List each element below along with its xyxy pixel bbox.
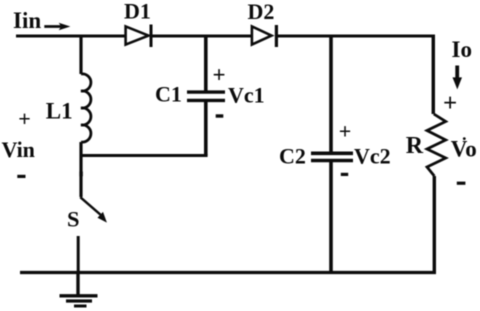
svg-text:+: + [18, 106, 31, 131]
svg-text:D1: D1 [124, 0, 151, 24]
svg-text:Io: Io [452, 37, 472, 62]
svg-text:C2: C2 [279, 143, 306, 168]
svg-text:Vo: Vo [451, 136, 477, 161]
svg-text:L1: L1 [46, 98, 73, 123]
svg-text:+: + [213, 63, 226, 88]
svg-text:+: + [443, 90, 457, 117]
svg-text:R: R [406, 133, 424, 159]
svg-text:S: S [67, 206, 80, 231]
svg-text:Iin: Iin [13, 8, 41, 33]
svg-text:D2: D2 [248, 0, 275, 24]
svg-text:Vin: Vin [2, 137, 35, 162]
svg-text:+: + [339, 118, 352, 143]
svg-text:Vc2: Vc2 [354, 143, 391, 168]
svg-text:Vc1: Vc1 [228, 83, 265, 108]
svg-text:C1: C1 [155, 81, 182, 106]
